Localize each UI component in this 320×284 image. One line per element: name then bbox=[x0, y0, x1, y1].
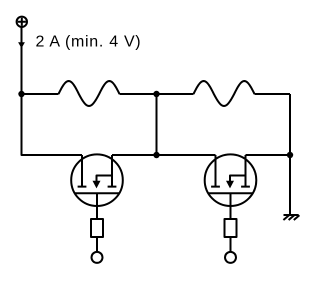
wire L2 to right rail corner bbox=[255, 93, 291, 95]
wire middle vertical node B to node C bbox=[156, 94, 158, 155]
wire Q2 drain to node D bbox=[246, 154, 291, 156]
ground hatch ticks bbox=[283, 215, 299, 220]
terminal T1 (open circle) bbox=[92, 252, 103, 263]
inductor L1 (wave winding) bbox=[59, 81, 120, 106]
svg-text:2 A (min. 4 V): 2 A (min. 4 V) bbox=[36, 33, 142, 50]
resistor R1 (gate series element) bbox=[91, 219, 103, 237]
transistor Q1 substrate arrow (branch from drain, pointing down) bbox=[97, 176, 113, 182]
transistor Q1 (MOSFET, circle envelope) bbox=[71, 154, 123, 206]
ground (chassis ground bar) bbox=[284, 214, 299, 216]
wire supply down to node A bbox=[21, 27, 23, 94]
node C junction dot bbox=[153, 152, 159, 158]
transistor Q2 substrate arrow (branch from drain, pointing down) bbox=[230, 176, 246, 182]
transistor Q2 gate line bbox=[209, 192, 253, 194]
transistor Q2 drain lead (right vertical + contact tick) bbox=[241, 155, 250, 187]
transistor Q2 (MOSFET, circle envelope) bbox=[205, 154, 257, 206]
wire left rail down and over to Q1 source bbox=[22, 94, 83, 155]
wire R1 to terminal T1 bbox=[96, 237, 98, 252]
resistor R2 (gate series element) bbox=[225, 219, 237, 237]
wire rail Q1 drain to Q2 source bbox=[112, 154, 216, 156]
wire node B to L2 bbox=[157, 93, 194, 95]
wire gate lead of Q1 down to resistor bbox=[96, 193, 98, 219]
wire R2 to terminal T2 bbox=[230, 237, 232, 252]
wire gate lead of Q2 down to resistor bbox=[230, 193, 232, 219]
wire L1 to node B bbox=[120, 93, 157, 95]
wire node A to L1 bbox=[22, 93, 59, 95]
node D junction dot (drain of Q2 joins right rail) bbox=[287, 152, 293, 158]
current arrow (direction of 2 A flow) bbox=[18, 42, 25, 48]
transistor Q2 source lead (left vertical + contact tick) bbox=[211, 155, 220, 187]
wire right rail vertical down to ground bbox=[289, 94, 291, 215]
transistor Q1 gate line bbox=[75, 192, 119, 194]
node B junction dot bbox=[153, 91, 159, 97]
transistor Q1 drain lead (right vertical + contact tick) bbox=[108, 155, 117, 187]
inductor L2 (wave winding) bbox=[194, 81, 255, 106]
terminal T2 (open circle) bbox=[225, 252, 236, 263]
supply terminal + (circled plus, positive supply) bbox=[17, 17, 27, 27]
node A junction dot bbox=[18, 91, 24, 97]
transistor Q1 source lead (left vertical + contact tick) bbox=[78, 155, 87, 187]
